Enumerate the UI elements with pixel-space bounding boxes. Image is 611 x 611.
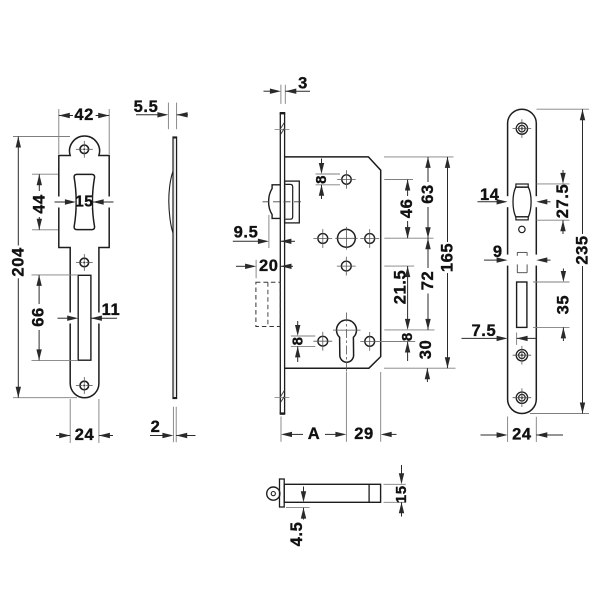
svg-text:24: 24 [512, 426, 532, 444]
svg-text:27.5: 27.5 [554, 184, 572, 219]
faceplate deadbolt slot (35) [517, 282, 527, 327]
dim 46 [407, 180, 409, 197]
lock case faceplate strip [279, 113, 281, 414]
case follower hole [338, 229, 356, 247]
dim 8 lower left [297, 321, 299, 327]
faceplate latch bolt [516, 184, 528, 187]
svg-text:235: 235 [573, 235, 591, 264]
strike plate outline [59, 136, 109, 398]
dim 44 extension lines [32, 173, 58, 175]
dim A/29 extension lines [280, 417, 282, 442]
dim 7.5 [462, 337, 499, 339]
strike plate side latch dimple [169, 171, 173, 233]
dim 66 extension lines [32, 274, 79, 276]
deadbolt dashed centerline [267, 282, 269, 326]
dim 66 [38, 275, 40, 304]
dim 204 extension lines [13, 136, 70, 138]
dim 2 [150, 435, 164, 437]
strike plate bottom screw hole [80, 381, 89, 390]
dim 5.5 [136, 114, 160, 116]
dim 2 extension lines [172, 407, 174, 442]
dim 9.5 extension line [268, 215, 270, 248]
dim 165 case [447, 157, 449, 242]
latch side flange [280, 479, 285, 507]
strike plate middle screw hole [80, 258, 89, 267]
dim 4.5 [303, 487, 305, 494]
svg-text:21.5: 21.5 [391, 270, 409, 305]
dim 9 [484, 259, 499, 261]
dim 20 [236, 265, 247, 267]
svg-text:8: 8 [290, 336, 307, 345]
cylinder center extension [384, 329, 434, 331]
dim 35 extension lines [533, 281, 570, 283]
dim 35 [562, 269, 564, 274]
dim 72 [427, 238, 429, 268]
strike plate edge gaps for dim arrows [58, 197, 61, 208]
lower hole center extension [378, 341, 416, 343]
strike plate long slot (11 wide) [78, 275, 91, 360]
latch side body [284, 484, 380, 502]
latch centerline [263, 201, 303, 203]
dim 8 right (cyl to hole) [405, 319, 410, 330]
dim 15 side [401, 465, 403, 475]
strike plate latch opening (15 wide) [74, 174, 95, 229]
dim 15 extension lines [384, 483, 406, 485]
case bottom edge extension [384, 367, 456, 369]
top hole center extension [384, 179, 413, 181]
dim 9.5 [233, 240, 260, 242]
dim 8 top hole [321, 159, 323, 166]
svg-text:24: 24 [75, 426, 95, 444]
dim 8 top hole tangent lines [316, 173, 341, 175]
euro cylinder hole [337, 320, 357, 362]
latch bolt head (case view) [269, 185, 281, 219]
dim 235 extension lines [537, 108, 590, 110]
dim 14 [478, 201, 500, 203]
svg-text:11: 11 [102, 301, 121, 319]
dim 235 [582, 109, 584, 234]
dim 24 right [481, 434, 499, 436]
latch tail outer block [285, 181, 300, 223]
latch side end cap line [368, 484, 370, 502]
svg-text:8: 8 [399, 332, 416, 341]
dim 15 [55, 201, 67, 203]
svg-text:44: 44 [30, 194, 48, 214]
dim 42 [59, 115, 73, 117]
dim 7.5 extension line [516, 332, 518, 345]
lock faceplate outline [508, 109, 537, 413]
svg-text:30: 30 [417, 340, 435, 360]
svg-text:29: 29 [354, 425, 374, 443]
case hole below follower (21.5) [341, 261, 351, 271]
dim 3 extension lines [280, 85, 282, 104]
dim 204 [17, 137, 19, 246]
svg-text:7.5: 7.5 [472, 322, 497, 340]
dim 24 right extension lines [507, 417, 509, 443]
case lower right hole [365, 337, 375, 347]
faceplate break mark top [275, 128, 290, 130]
case lower left hole (8 dia) [318, 336, 328, 346]
svg-text:5.5: 5.5 [134, 98, 159, 116]
dim A [281, 432, 292, 437]
dim 27.5 [562, 170, 564, 175]
lock case body outline [285, 157, 381, 368]
deadbolt dashed box [256, 282, 280, 326]
svg-text:46: 46 [398, 199, 416, 219]
faceplate edge gaps for arrows [507, 196, 509, 207]
dim 63 [427, 157, 429, 182]
svg-text:66: 66 [30, 307, 48, 327]
latch side roller [267, 487, 280, 500]
strike plate side bar [173, 137, 177, 399]
svg-text:204: 204 [9, 247, 27, 277]
faceplate upper screw hole [516, 350, 527, 361]
dim 27.5 extension lines [537, 183, 570, 185]
svg-text:42: 42 [74, 106, 94, 124]
svg-text:72: 72 [419, 271, 437, 291]
svg-text:2: 2 [151, 418, 161, 436]
svg-text:A: A [308, 425, 321, 443]
svg-text:9: 9 [493, 243, 503, 261]
dim 24 [56, 435, 70, 437]
faceplate break mark bottom [275, 396, 290, 398]
follower center extension [384, 237, 433, 239]
dim 21.5 [407, 226, 409, 233]
svg-text:14: 14 [480, 186, 500, 204]
svg-text:15: 15 [393, 485, 410, 503]
case top edge extension [384, 156, 454, 158]
svg-text:20: 20 [259, 257, 279, 275]
case follower left hole [318, 234, 328, 244]
svg-text:9.5: 9.5 [234, 224, 259, 242]
dim 24 extension lines [69, 399, 71, 443]
dim 42 extension lines [58, 109, 60, 154]
dim 20 extension line [255, 260, 257, 279]
below-follower hole extension [384, 265, 414, 267]
svg-text:8: 8 [313, 175, 330, 184]
dim 8 lower left tangent lines [291, 335, 315, 337]
dim 29 [381, 432, 392, 437]
case top hole (8 dia) [342, 175, 351, 184]
strike plate top screw hole [80, 145, 89, 154]
dim 3 [264, 90, 272, 92]
dim 4.5 extension line [286, 507, 310, 509]
dim 5.5 extension lines [167, 103, 169, 130]
svg-text:3: 3 [298, 75, 308, 93]
faceplate slit (9 wide) [517, 251, 527, 253]
svg-text:165: 165 [438, 243, 456, 272]
dim 11 [58, 317, 70, 319]
faceplate lower screw hole [516, 392, 527, 403]
svg-text:15: 15 [75, 194, 93, 211]
dim 44 [38, 174, 40, 191]
svg-text:35: 35 [554, 295, 572, 315]
svg-text:4.5: 4.5 [288, 522, 306, 547]
latch tail inner block [286, 184, 293, 219]
faceplate top screw hole [516, 123, 527, 134]
case follower right hole [365, 234, 375, 244]
faceplate small hole [519, 226, 525, 232]
svg-text:63: 63 [419, 184, 437, 204]
